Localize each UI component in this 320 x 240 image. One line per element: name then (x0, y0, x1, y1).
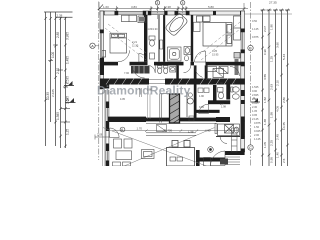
svg-text:4: 4 (182, 1, 184, 5)
dim texts in living (97, 127, 211, 137)
svg-text:A: A (91, 43, 94, 48)
section marker A left lower (66, 97, 76, 103)
svg-text:4.25: 4.25 (212, 49, 218, 53)
left wall lower (100, 79, 109, 167)
bottom-right bathroom (215, 124, 240, 137)
wall between WC and closet (158, 15, 160, 62)
svg-text:7.90: 7.90 (124, 71, 130, 75)
washer in small room (213, 69, 224, 78)
bedroom label (212, 49, 219, 57)
tech room unit (189, 116, 194, 121)
right dimension chain lines (261, 10, 291, 166)
right dimension tick marks (261, 9, 289, 157)
bottom walls right (196, 150, 245, 166)
wall closet/bath (163, 15, 165, 62)
svg-text:1.705: 1.705 (165, 129, 172, 133)
small room fixtures mid-right (207, 67, 229, 74)
top-left room roof dashes (105, 24, 146, 60)
bathroom door arc (184, 65, 191, 72)
bathroom vanity (184, 47, 191, 61)
left dimension value labels (46, 32, 69, 135)
svg-text:1.05: 1.05 (263, 142, 267, 148)
bedroom dark cabinet (234, 53, 240, 59)
entry closet lines (140, 88, 142, 97)
shower tray (168, 47, 182, 61)
corridor door arc 3 (195, 66, 203, 77)
kitchen island (167, 141, 195, 167)
axis line left (99, 2, 251, 167)
svg-text:0.90: 0.90 (263, 49, 267, 55)
top-right connector line (244, 13, 292, 15)
svg-text:0.875: 0.875 (254, 121, 261, 125)
corridor WC toilet + bidet (158, 66, 176, 74)
right annotation text block (252, 19, 261, 141)
top-left room: wardrobe (122, 15, 147, 22)
svg-text:6: 6 (121, 128, 123, 132)
svg-text:1.95: 1.95 (269, 112, 273, 118)
bedroom wardrobe (234, 16, 241, 40)
pantry west wall (160, 94, 170, 123)
svg-text:1.80/1.90: 1.80/1.90 (148, 28, 159, 31)
svg-text:1.125: 1.125 (254, 137, 261, 141)
bedroom door arc (195, 51, 206, 62)
door arc bottom-left (110, 128, 120, 138)
tech room walls (186, 92, 188, 117)
svg-text:2.5: 2.5 (282, 158, 286, 163)
door arc top-left room (139, 54, 148, 63)
svg-text:1.385: 1.385 (56, 112, 60, 120)
right wall (241, 11, 245, 152)
svg-text:1.125: 1.125 (252, 27, 259, 31)
WC1 fixtures (149, 36, 155, 59)
svg-text:5.43: 5.43 (282, 54, 286, 60)
stool + marker right (204, 147, 214, 166)
svg-text:1.40: 1.40 (276, 152, 280, 158)
svg-text:1.60: 1.60 (103, 5, 109, 9)
svg-text:1.5: 1.5 (232, 82, 236, 85)
svg-text:0.95: 0.95 (252, 113, 258, 117)
axis bubble right 2 (248, 145, 253, 150)
svg-text:A: A (66, 97, 69, 102)
section marker A left (64, 80, 74, 86)
bedroom roof dashes (195, 22, 240, 60)
svg-text:2.10: 2.10 (56, 68, 60, 74)
svg-text:0.50: 0.50 (252, 19, 258, 23)
svg-text:2.08: 2.08 (97, 133, 103, 137)
top dimension value labels (103, 5, 214, 9)
svg-text:1.525: 1.525 (252, 85, 259, 89)
svg-text:2.7: 2.7 (220, 102, 224, 106)
top wall windows (118, 11, 186, 14)
svg-text:3.55: 3.55 (263, 74, 267, 80)
svg-text:1.00: 1.00 (51, 52, 55, 58)
axis stems into plan (158, 6, 183, 20)
svg-text:B: B (249, 46, 252, 51)
corridor north wall H1 (104, 62, 244, 66)
svg-text:2.06: 2.06 (206, 77, 212, 81)
svg-text:2.21: 2.21 (132, 40, 138, 44)
corridor door arc 2 (133, 66, 145, 78)
pantry shelves (148, 94, 151, 120)
svg-text:1.25: 1.25 (269, 56, 273, 62)
svg-text:1.80: 1.80 (269, 24, 273, 30)
svg-text:5.80: 5.80 (208, 5, 214, 9)
svg-text:2.10: 2.10 (276, 80, 280, 86)
H2 opening slider lines (149, 80, 165, 84)
living dim chain (112, 130, 238, 132)
X diagonals (103, 128, 214, 166)
left wall window (100, 33, 103, 57)
section marker A right (251, 96, 260, 102)
svg-text:3.83: 3.83 (131, 5, 137, 9)
radiator on left wall (102, 51, 106, 58)
bedroom cabinet near wall (194, 22, 201, 31)
chimney shaft hatched (170, 94, 180, 123)
mid-right small room walls (205, 65, 208, 81)
steps bottom right (225, 157, 240, 165)
vanity rects left room (198, 88, 209, 93)
right wall dark low (241, 120, 245, 137)
doormat living (157, 125, 167, 132)
bathroom right wall V2 (191, 15, 193, 62)
room labels right block (199, 82, 236, 109)
svg-text:2.635: 2.635 (51, 89, 55, 97)
closet shelves (160, 40, 163, 49)
sofa set (113, 139, 133, 166)
svg-text:1.52: 1.52 (263, 97, 267, 103)
top wall (100, 11, 244, 15)
bathroom tub (165, 13, 189, 37)
left dimension chain lines (44, 12, 73, 148)
svg-text:A: A (253, 96, 256, 101)
svg-text:4.90: 4.90 (205, 129, 211, 133)
axis bubble left (93, 45, 99, 47)
kitchen counter line (146, 133, 196, 136)
svg-text:0.90: 0.90 (252, 89, 258, 93)
left wall upper (100, 11, 104, 89)
top-left room label (132, 40, 139, 48)
living north wall H3 (108, 117, 230, 122)
svg-text:A: A (65, 80, 68, 85)
left dimension tick marks (44, 17, 70, 147)
svg-text:2.07: 2.07 (263, 26, 267, 32)
corridor door arc 1 (118, 50, 130, 62)
svg-text:3: 3 (156, 1, 158, 5)
bathroom door arc low (220, 137, 227, 144)
svg-text:4.05: 4.05 (120, 98, 125, 101)
svg-text:2.30: 2.30 (252, 105, 258, 109)
svg-text:0.95: 0.95 (269, 157, 273, 163)
corridor south wall H2 (100, 79, 245, 85)
corridor WC wall (176, 65, 179, 81)
door arc to right WC (230, 67, 240, 77)
svg-text:2.25: 2.25 (269, 140, 273, 146)
door arc small hall (199, 104, 209, 114)
svg-text:10.35: 10.35 (282, 122, 286, 130)
kitchen counter east (232, 128, 238, 152)
axis bubble D top (155, 1, 159, 5)
wc3 fixtures (231, 87, 239, 99)
svg-text:1.38: 1.38 (263, 119, 267, 125)
svg-text:3.05: 3.05 (199, 106, 204, 109)
svg-text:27.35: 27.35 (269, 1, 277, 5)
dark threshold (220, 159, 228, 165)
svg-text:2.00: 2.00 (254, 133, 260, 137)
svg-text:0.875: 0.875 (252, 35, 259, 39)
svg-text:3.985: 3.985 (66, 32, 70, 40)
bedroom bed (197, 16, 233, 46)
right dimension value labels (263, 1, 286, 164)
svg-text:2.90: 2.90 (218, 82, 223, 85)
svg-text:2.45: 2.45 (276, 134, 280, 140)
svg-text:2.85: 2.85 (56, 32, 60, 38)
svg-text:10.35: 10.35 (46, 92, 50, 100)
svg-text:2.80: 2.80 (282, 97, 286, 103)
svg-text:1.90: 1.90 (199, 95, 204, 98)
boiler (187, 98, 193, 104)
svg-text:4.05: 4.05 (276, 106, 280, 112)
svg-text:11.35: 11.35 (132, 44, 139, 48)
door marker circle (120, 127, 125, 132)
svg-text:1.485: 1.485 (66, 56, 70, 64)
hall labels (124, 71, 224, 106)
WC door arc (148, 65, 155, 72)
svg-text:DiamondReality: DiamondReality (97, 83, 191, 97)
svg-text:C: C (249, 145, 252, 150)
terrace door arc bottom right (211, 151, 226, 166)
svg-text:2.63: 2.63 (269, 84, 273, 90)
wall V1 (144, 15, 147, 62)
axis bubble E top (181, 1, 185, 5)
svg-text:3.60: 3.60 (276, 42, 280, 48)
svg-text:0.925: 0.925 (254, 129, 261, 133)
left dim arrow line (95, 135, 110, 140)
kitchen cabinet (142, 150, 155, 159)
top-left room: bed (110, 33, 127, 53)
svg-text:0.80: 0.80 (147, 89, 152, 92)
svg-text:15.95: 15.95 (212, 53, 219, 57)
wc2 walls (213, 85, 217, 104)
svg-text:1.05: 1.05 (252, 109, 258, 113)
terrace facade lines (102, 90, 105, 166)
svg-text:1.50: 1.50 (254, 125, 260, 129)
axis bubble right 1 (248, 45, 253, 50)
svg-text:1.70: 1.70 (137, 127, 143, 131)
svg-text:2.125: 2.125 (252, 117, 259, 121)
svg-text:2.38: 2.38 (165, 5, 171, 9)
hall furniture dark (131, 66, 150, 74)
wc2 sink + toilet (218, 88, 224, 99)
svg-text:1.25: 1.25 (66, 129, 70, 135)
